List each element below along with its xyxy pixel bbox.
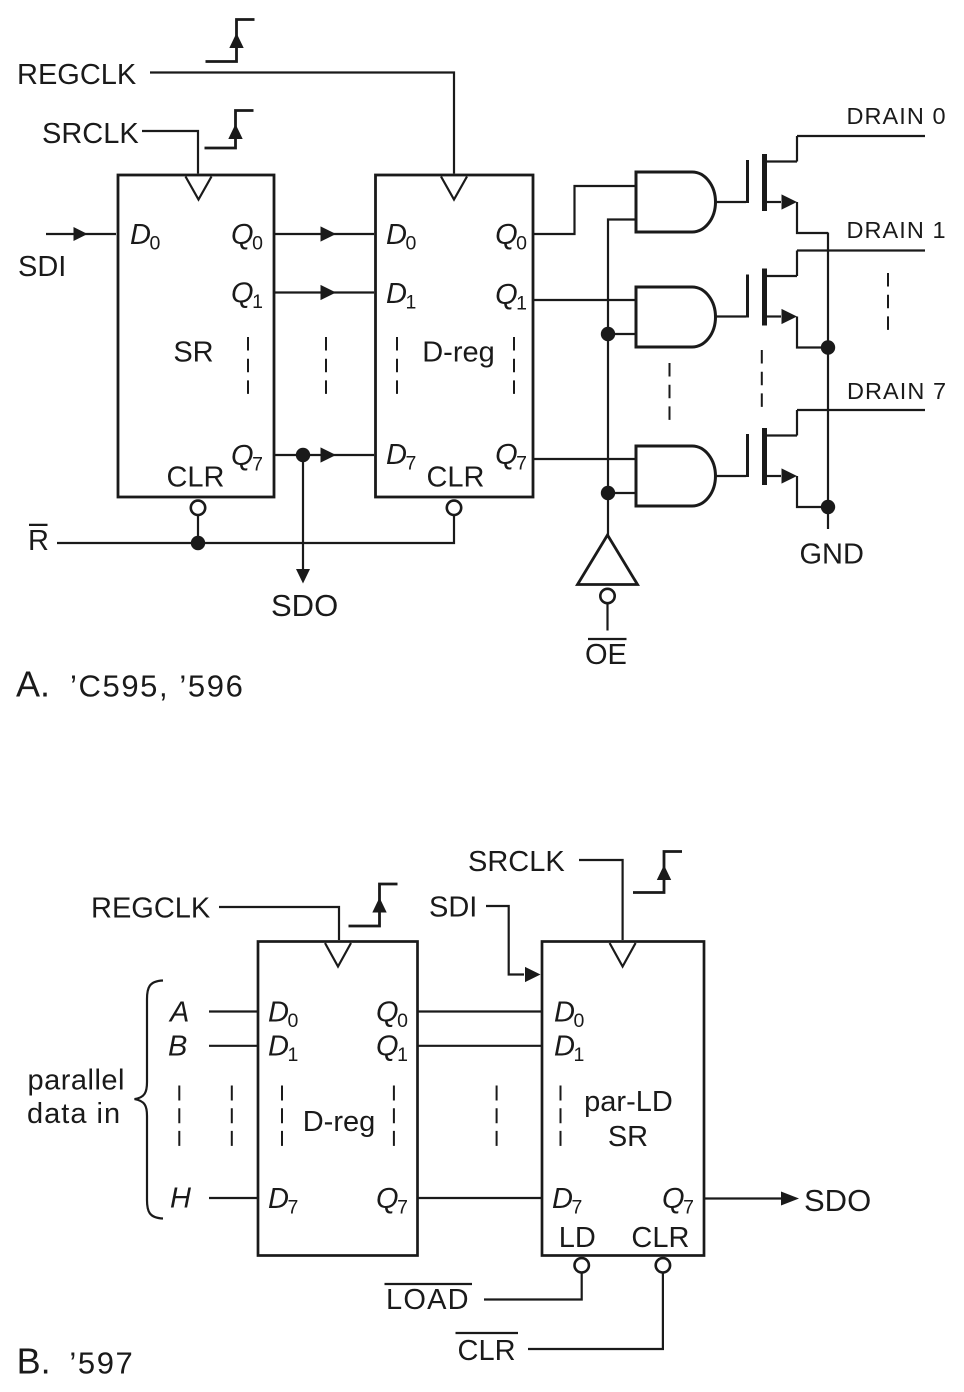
svg-text:REGCLK: REGCLK [17, 59, 137, 91]
svg-text:CLR: CLR [426, 462, 484, 494]
svg-text:SDO: SDO [271, 588, 338, 623]
svg-text:OE: OE [585, 639, 627, 671]
svg-text:REGCLK: REGCLK [91, 893, 211, 925]
svg-text:DRAIN 1: DRAIN 1 [847, 217, 947, 243]
svg-text:data in: data in [27, 1098, 121, 1130]
svg-text:SRCLK: SRCLK [42, 118, 139, 150]
svg-text:A: A [168, 997, 189, 1029]
svg-text:SDO: SDO [804, 1183, 871, 1218]
svg-text:GND: GND [800, 539, 864, 571]
svg-text:A.: A. [16, 664, 50, 705]
svg-text:D-reg: D-reg [422, 337, 495, 369]
svg-text:DRAIN 0: DRAIN 0 [847, 103, 947, 129]
svg-text:SDI: SDI [18, 251, 66, 283]
svg-text:H: H [170, 1183, 191, 1215]
svg-text:SR: SR [173, 337, 213, 369]
svg-text:B: B [168, 1031, 187, 1063]
svg-text:LD: LD [559, 1222, 596, 1254]
svg-text:SR: SR [608, 1121, 648, 1153]
svg-text:LOAD: LOAD [386, 1284, 470, 1316]
svg-text:parallel: parallel [28, 1065, 126, 1097]
svg-text:B.: B. [17, 1341, 51, 1382]
svg-text:DRAIN 7: DRAIN 7 [847, 378, 947, 404]
svg-text:’C595, ’596: ’C595, ’596 [70, 669, 244, 704]
svg-text:R: R [28, 525, 49, 557]
svg-text:CLR: CLR [166, 462, 224, 494]
svg-text:CLR: CLR [458, 1335, 516, 1367]
svg-text:CLR: CLR [631, 1222, 689, 1254]
svg-text:par-LD: par-LD [584, 1086, 673, 1118]
svg-text:SDI: SDI [429, 892, 477, 924]
svg-text:’597: ’597 [69, 1346, 134, 1381]
svg-text:D-reg: D-reg [303, 1106, 376, 1138]
svg-text:SRCLK: SRCLK [468, 846, 565, 878]
